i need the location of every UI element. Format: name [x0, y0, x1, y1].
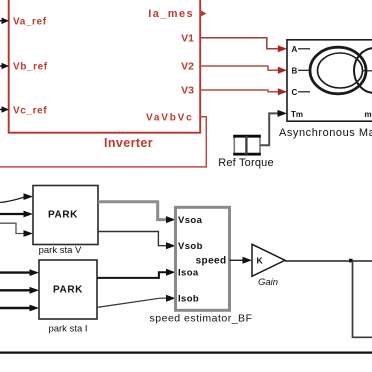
wire park sta I out1 to Isoa [97, 272, 166, 278]
arrowhead input 1 [30, 269, 40, 276]
machine icon outer ellipse [310, 47, 366, 94]
arrowhead into Tm [278, 110, 288, 117]
arrowhead into port B [278, 67, 287, 74]
svg-text:speed estimator_BF: speed estimator_BF [150, 313, 253, 325]
input port arrow Va_ref [0, 18, 9, 25]
svg-text:V1: V1 [181, 33, 194, 45]
stub port B [298, 69, 310, 71]
wire V2 to machine port B [200, 66, 279, 70]
svg-text:VaVbVc: VaVbVc [146, 112, 194, 123]
wire branch down to scope (cut off) [353, 261, 372, 337]
svg-text:C: C [292, 88, 298, 97]
wire input 2 park sta I [0, 289, 31, 291]
arrowhead into port A [278, 45, 287, 52]
subsystem block Inverter [9, 0, 201, 133]
svg-text:K: K [257, 256, 264, 266]
svg-text:B: B [292, 67, 298, 76]
arrowhead input 2 [30, 287, 40, 294]
arrowhead input 2 [24, 211, 34, 218]
svg-text:Vsoa: Vsoa [178, 215, 203, 226]
arrowhead into Isob [166, 295, 176, 302]
arrowhead into port C [278, 88, 287, 95]
wire VaVbVc feedback to left edge [0, 117, 206, 167]
gain triangle [252, 244, 285, 276]
stub port A [298, 48, 310, 50]
svg-text:m: m [365, 110, 372, 119]
svg-text:V2: V2 [181, 61, 194, 73]
block Asynchronous Machine [287, 40, 372, 121]
svg-text:PARK: PARK [48, 210, 78, 221]
svg-text:Ia_mes: Ia_mes [148, 8, 194, 20]
step waveform icon rising edge [245, 136, 247, 155]
svg-text:Ref Torque: Ref Torque [218, 157, 274, 169]
arrowhead into gain [243, 257, 253, 264]
svg-text:Asynchronous Machine: Asynchronous Machine [279, 127, 372, 139]
svg-text:PARK: PARK [53, 285, 83, 296]
separator line bottom [0, 352, 372, 354]
stub port C [298, 91, 310, 93]
block Ref Torque (step source) [234, 135, 260, 155]
wire gain output to right edge [285, 260, 372, 262]
wire park sta V out1 to Vsoa [98, 202, 166, 220]
output port arrow Ia_mes (unconnected) [200, 10, 207, 17]
machine icon inner ellipse [318, 53, 363, 88]
arrowhead into Isoa [166, 269, 176, 276]
svg-text:Va_ref: Va_ref [13, 17, 47, 28]
block PARK (current) [39, 260, 97, 319]
wire input 2 park sta V [0, 213, 25, 215]
svg-text:Isoa: Isoa [178, 268, 199, 279]
block speed estimator_BF [176, 207, 230, 310]
arrowhead input 3 [30, 305, 40, 312]
block PARK (voltage) [33, 186, 98, 245]
arrowhead into Vsob [166, 242, 176, 249]
machine icon right ellipse (cut off) [354, 48, 372, 93]
wire speed to gain [230, 259, 244, 261]
wire input 3 park sta I [0, 307, 31, 309]
step waveform icon bottom level [233, 153, 261, 156]
wire input 3 park sta V [0, 223, 25, 233]
wire V3 to machine port C [200, 90, 279, 92]
stub output right [363, 70, 372, 72]
svg-text:park sta I: park sta I [48, 324, 87, 335]
wire Ref Torque to Tm [260, 113, 278, 145]
wire V1 to machine port A [200, 38, 279, 49]
svg-text:Vc_ref: Vc_ref [13, 105, 47, 116]
svg-text:V3: V3 [181, 85, 194, 97]
arrowhead input 3 [24, 230, 34, 237]
svg-text:speed: speed [196, 255, 227, 266]
input port arrow Vb_ref [0, 63, 9, 70]
arrowhead input 1 [24, 193, 34, 200]
wire park sta I out2 to Isob [97, 298, 166, 307]
wire input 1 park sta I [0, 271, 31, 273]
arrowhead into Vsoa [166, 216, 176, 223]
svg-text:Vb_ref: Vb_ref [13, 62, 48, 73]
svg-text:A: A [292, 45, 298, 54]
wire park sta V out2 to Vsob [98, 232, 166, 246]
svg-text:Tm: Tm [291, 110, 303, 119]
input port arrow Vc_ref [0, 106, 9, 113]
wire input 1 park sta V [0, 197, 25, 203]
svg-text:Vsob: Vsob [178, 241, 203, 252]
junction dot [349, 259, 353, 263]
svg-text:park sta V: park sta V [39, 245, 82, 256]
svg-text:Inverter: Inverter [104, 136, 153, 150]
svg-text:Isob: Isob [178, 294, 199, 305]
step waveform icon top level [233, 135, 261, 138]
svg-text:Gain: Gain [258, 277, 278, 288]
